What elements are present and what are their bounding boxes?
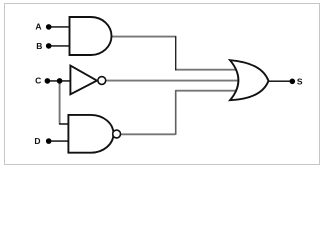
wire segment NAND net horizontal into OR bottom input — [175, 90, 239, 92]
border frame — [5, 4, 320, 165]
terminal dot S — [290, 79, 296, 85]
OR gate U4 — [230, 60, 269, 100]
wire stub input B — [49, 45, 71, 47]
wire stub input A — [49, 26, 71, 28]
svg-text:S: S — [297, 76, 303, 86]
svg-text:A: A — [35, 22, 41, 32]
terminal dot B — [46, 43, 52, 49]
svg-text:D: D — [34, 136, 40, 146]
NAND gate U3 body — [68, 115, 113, 153]
wire branch from node C junction down to NAND input — [59, 81, 61, 124]
AND gate U1 — [70, 17, 112, 55]
wire stub NAND top input — [59, 123, 69, 125]
NOT gate U2 triangle — [70, 66, 97, 95]
terminal dot A — [46, 24, 52, 30]
svg-text:B: B — [36, 41, 42, 51]
wire segment AND net horizontal into OR top input — [175, 69, 239, 71]
wire segment AND net vertical drop — [175, 36, 177, 71]
junction dot node C branch — [57, 78, 63, 84]
svg-text:C: C — [35, 76, 41, 86]
NOT gate U2 bubble — [98, 77, 106, 85]
wire segment NAND net vertical rise — [175, 90, 177, 135]
wire segment AND output horizontal — [112, 36, 176, 38]
wire segment NAND output horizontal — [121, 133, 176, 135]
wire stub input C — [47, 80, 70, 82]
terminal dot C — [45, 78, 51, 84]
wire output S — [268, 80, 291, 82]
NAND gate U3 bubble — [113, 130, 121, 138]
wire stub input D — [49, 140, 69, 142]
wire net from NOT output to OR middle input — [106, 80, 239, 82]
terminal dot D — [46, 138, 52, 144]
